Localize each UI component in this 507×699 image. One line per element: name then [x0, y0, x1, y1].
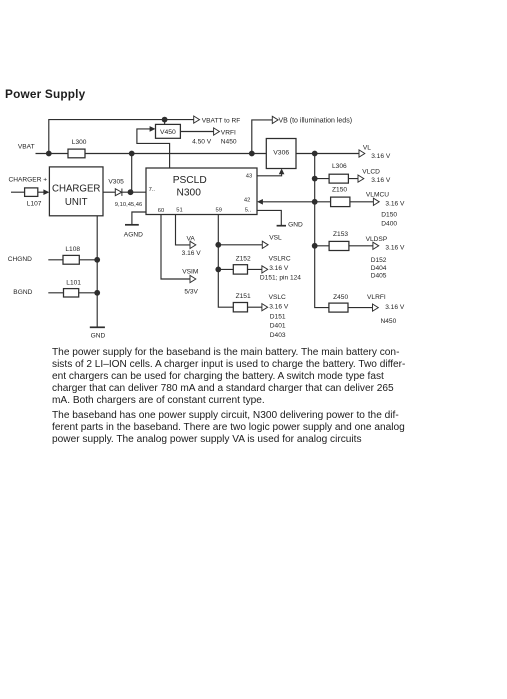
wire VSLC row [248, 306, 262, 308]
wire N300 pin51 to VA [176, 215, 190, 245]
svg-text:3.16 V: 3.16 V [371, 153, 391, 160]
inductor L108 [63, 255, 79, 264]
svg-text:3.16 V: 3.16 V [371, 177, 391, 184]
svg-text:L300: L300 [72, 139, 87, 146]
flag VB [272, 116, 278, 123]
wire charger output to diode [103, 191, 115, 193]
svg-text:VLDSP: VLDSP [366, 236, 388, 243]
wire V306 out / VL row [296, 153, 359, 155]
svg-text:D151; pin 124: D151; pin 124 [260, 274, 301, 281]
svg-text:D405: D405 [371, 272, 387, 279]
regulator V306 box [266, 139, 296, 169]
svg-text:L107: L107 [27, 201, 42, 208]
svg-text:L108: L108 [65, 246, 80, 253]
junction node BGND [94, 290, 100, 296]
wire V450 control from N300 top [137, 129, 170, 168]
wire VBAT main rail [36, 153, 267, 155]
svg-text:GND: GND [288, 222, 303, 229]
wire right bus column [315, 154, 329, 308]
wire VBATT-to-RF branch [49, 120, 194, 154]
wire VLDSP row [315, 245, 373, 247]
svg-text:AGND: AGND [124, 231, 143, 238]
inductor L107 [25, 188, 38, 197]
svg-text:N450: N450 [221, 139, 237, 146]
junction node VSLRC [215, 267, 221, 273]
svg-text:3.16 V: 3.16 V [182, 250, 202, 257]
wire diode node to N300 pin7 [122, 191, 146, 193]
svg-text:3.16 V: 3.16 V [385, 304, 405, 311]
svg-text:VSLC: VSLC [269, 294, 286, 301]
svg-text:Z152: Z152 [236, 256, 251, 263]
wire VB branch [252, 120, 272, 154]
ferrite Z153 [329, 241, 349, 250]
svg-text:D150: D150 [381, 211, 397, 218]
diode V305 [115, 189, 122, 196]
svg-text:BGND: BGND [13, 289, 32, 296]
wire N300 pin5 to GND [257, 210, 281, 225]
ferrite Z450 [329, 303, 348, 312]
svg-text:CHARGER: CHARGER [52, 183, 100, 194]
svg-text:5..: 5.. [245, 208, 252, 214]
wire V450 output to VRFI [180, 131, 213, 133]
arrow into N300 pin42 [257, 199, 263, 205]
svg-text:Z450: Z450 [333, 294, 348, 301]
flag VLDSP [373, 242, 379, 249]
svg-text:D152: D152 [371, 257, 387, 264]
svg-text:D151: D151 [270, 314, 286, 321]
wire CHGND row [48, 259, 97, 261]
wire VLRFI row [348, 307, 372, 309]
wire charger ground column [96, 216, 98, 327]
svg-text:CHGND: CHGND [8, 256, 32, 263]
flag VLMCU [373, 198, 379, 205]
svg-text:VSIM: VSIM [182, 269, 198, 276]
wire BGND row [48, 292, 97, 294]
flag VL [359, 150, 365, 157]
junction node V450 tap [162, 117, 168, 123]
svg-text:CHARGER +: CHARGER + [9, 176, 48, 183]
junction node VBAT/diode [129, 151, 135, 157]
ground AGND [125, 224, 139, 226]
svg-text:PSCLD: PSCLD [173, 175, 207, 186]
junction node VSL [215, 242, 221, 248]
svg-text:Z153: Z153 [333, 231, 348, 238]
svg-text:VA: VA [187, 236, 196, 243]
svg-text:N300: N300 [177, 188, 202, 199]
svg-text:3.16 V: 3.16 V [385, 200, 405, 207]
wire charger input [11, 191, 44, 193]
ground GND bottom [90, 326, 105, 328]
flag VSL [262, 241, 268, 248]
svg-text:L306: L306 [332, 163, 347, 170]
flag VLCD [358, 175, 364, 182]
svg-text:43: 43 [246, 173, 252, 179]
wire VLCD row [315, 178, 358, 180]
flag VSIM [190, 275, 196, 282]
svg-text:VLMCU: VLMCU [366, 191, 389, 198]
svg-text:UNIT: UNIT [65, 197, 88, 208]
svg-text:VBATT to RF: VBATT to RF [202, 117, 241, 124]
svg-text:VLRFI: VLRFI [367, 294, 386, 301]
svg-text:9,10,45,46: 9,10,45,46 [115, 202, 142, 208]
ferrite Z150 [331, 197, 350, 207]
svg-text:VBAT: VBAT [18, 144, 35, 151]
svg-text:3.16 V: 3.16 V [269, 304, 289, 311]
svg-text:D401: D401 [270, 323, 286, 330]
junction node diode output [128, 189, 134, 195]
svg-text:VL: VL [363, 145, 371, 152]
ferrite Z152 [233, 265, 247, 274]
svg-text:N450: N450 [381, 318, 397, 325]
wire N300 pin59 column [218, 215, 233, 308]
arrow into charger unit [43, 189, 49, 195]
svg-text:V305: V305 [108, 179, 124, 186]
svg-text:60: 60 [158, 208, 164, 214]
wire VSL row [218, 244, 262, 246]
inductor L300 [68, 149, 85, 158]
svg-text:L101: L101 [66, 280, 81, 287]
charger unit U1 box [49, 167, 103, 216]
svg-text:3.16 V: 3.16 V [269, 265, 289, 272]
svg-text:59: 59 [216, 208, 222, 214]
svg-text:V306: V306 [273, 149, 289, 156]
wire bus to N300 pin42 [263, 201, 315, 203]
svg-text:3.16 V: 3.16 V [385, 244, 405, 251]
wire VSLRC row [218, 268, 261, 270]
arrow into V450 [150, 126, 156, 132]
svg-text:5/3V: 5/3V [184, 289, 198, 296]
regulator N300 PSCLD box [146, 168, 257, 215]
junction node bus VLDSP [312, 243, 318, 249]
ground GND pin5 [277, 225, 286, 227]
svg-text:VRFI: VRFI [221, 130, 236, 137]
svg-text:D404: D404 [371, 265, 387, 272]
junction node bus VLMCU [312, 199, 318, 205]
regulator V450 box [156, 124, 181, 138]
inductor L101 [64, 289, 79, 297]
svg-text:VB (to illumination leds): VB (to illumination leds) [279, 117, 353, 124]
svg-text:Z150: Z150 [332, 187, 347, 194]
wire VBAT to diode node [131, 154, 133, 193]
svg-text:D403: D403 [270, 332, 286, 339]
svg-text:Z151: Z151 [236, 293, 251, 300]
svg-text:V450: V450 [160, 129, 176, 136]
svg-text:42: 42 [244, 197, 250, 203]
flag VBATT to RF [194, 116, 200, 123]
junction node bus VLCD [312, 176, 318, 182]
wire N300 pin60 to VSIM [161, 215, 190, 280]
ferrite Z151 [233, 303, 247, 312]
flag VSLRC [262, 266, 268, 273]
wire N300 pin43 to V306 [257, 174, 282, 176]
svg-text:4.50 V: 4.50 V [192, 139, 212, 146]
flag VLRFI [373, 304, 379, 311]
svg-text:51: 51 [176, 207, 182, 213]
arrow into V306 bottom [279, 169, 285, 175]
flag VRFI [214, 128, 220, 135]
svg-text:GND: GND [91, 333, 106, 340]
svg-text:VLCD: VLCD [362, 168, 380, 175]
wire V450 input drop [164, 120, 166, 125]
inductor L306 [329, 174, 348, 183]
junction node CHGND [94, 257, 100, 263]
svg-text:7..: 7.. [149, 187, 156, 193]
wire VLMCU row [315, 201, 374, 203]
flag VA [190, 241, 196, 248]
wire AGND from N300 [132, 212, 146, 225]
junction node VBAT/VB [249, 151, 255, 157]
svg-text:VSL: VSL [269, 235, 282, 242]
svg-text:D400: D400 [381, 221, 397, 228]
flag VSLC [262, 304, 268, 311]
junction node VBAT/VBATT [46, 151, 52, 157]
svg-text:VSLRC: VSLRC [269, 256, 291, 263]
junction node bus VL [312, 151, 318, 157]
